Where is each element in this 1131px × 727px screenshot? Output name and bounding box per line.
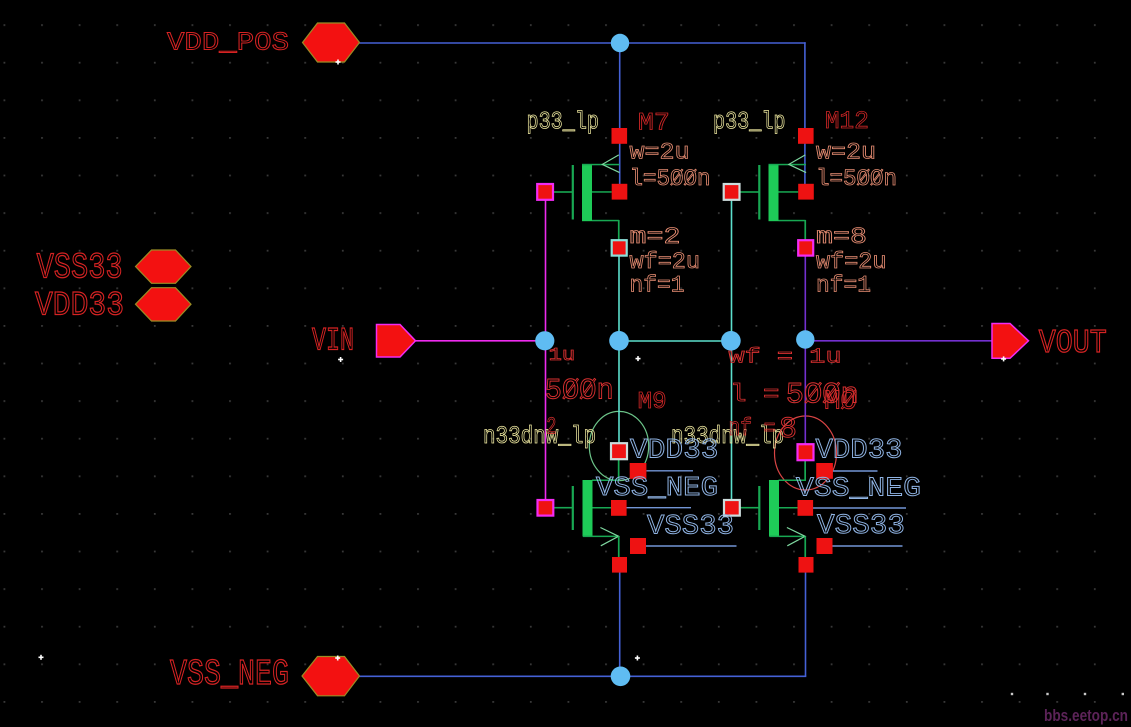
wire VIN from pin to junction: [415, 340, 546, 342]
svg-text:VDD_POS: VDD_POS: [167, 28, 289, 58]
label cellname n33dnw_lp of M9: [483, 422, 596, 451]
origin markers (white crosses): [39, 60, 1007, 661]
highlight ellipse around M0 drain: [775, 416, 837, 490]
svg-text:M9: M9: [638, 389, 667, 416]
svg-text:VSS33: VSS33: [647, 512, 734, 543]
bright grid dots bottom right: [1011, 693, 1124, 695]
svg-text:M12: M12: [825, 107, 869, 136]
svg-text:VSS_NEG: VSS_NEG: [170, 654, 289, 695]
svg-text:m=8: m=8: [816, 224, 867, 251]
wire M7 source to M7 bulk tie: [619, 136, 621, 192]
wire VDD rail drop to M12 source: [804, 42, 806, 136]
M0 bulk pin square: [798, 500, 814, 516]
M0 source pin square: [799, 557, 814, 573]
wire VIN vertical to M7 gate and M9 gate: [545, 192, 547, 508]
M9 gate pin square: [538, 500, 554, 516]
label instance M0: [824, 388, 857, 418]
M9 psub pin square: [630, 538, 646, 554]
label M0 edited nf =: [729, 414, 776, 443]
svg-text:VSS33: VSS33: [37, 248, 123, 289]
node VIN junction: [535, 331, 554, 350]
svg-text:1u: 1u: [549, 345, 576, 366]
label VIN: [312, 323, 354, 360]
svg-text:l =: l =: [730, 380, 780, 409]
label M12 param w=2u: [816, 140, 876, 167]
wire M9 bulk stub (VSS_NEG): [627, 507, 692, 509]
M0 dnw pin square: [816, 463, 833, 479]
net label VSS_NEG at M9 bulk: [596, 474, 718, 504]
label instance M12: [825, 107, 869, 136]
transistor M12 p33_lp pmos symbol: [740, 155, 807, 241]
wire VSS_NEG bottom rail: [360, 675, 807, 677]
pin VSS33 (hexagon): [136, 250, 192, 283]
wire M9 psub stub (VSS33): [646, 545, 737, 547]
label cellname p33_lp of M12: [713, 108, 786, 137]
wire M0 source down to VSS rail: [805, 564, 807, 676]
M7 drain pin square: [612, 240, 627, 255]
label M0 edited nf value 8: [779, 413, 797, 447]
label VDD33: [35, 288, 124, 326]
pin VSS_NEG (hexagon): [302, 657, 360, 696]
label M9 edited w value 1u: [549, 345, 576, 366]
net label VSS_NEG at M0 bulk: [796, 475, 921, 505]
svg-text:VDD33: VDD33: [35, 288, 124, 326]
svg-text:VOUT: VOUT: [1039, 325, 1107, 362]
label instance M9: [638, 389, 667, 416]
pin VDD_POS (hexagon): [303, 23, 360, 62]
watermark bbs.eetop.cn: [1044, 707, 1128, 725]
label M12 param nf=1: [816, 273, 871, 300]
svg-text:wf = 1u: wf = 1u: [729, 347, 842, 370]
label M7 param wf=2u: [630, 249, 701, 276]
wire M12 drain to M0 drain (VOUT vertical): [804, 248, 806, 452]
svg-text:M7: M7: [638, 109, 670, 138]
label M9 edited l value 500n: [545, 375, 614, 409]
node VSS rail junction: [611, 667, 631, 687]
svg-text:2: 2: [546, 415, 556, 442]
label M0 edited wf = 1u: [729, 347, 842, 370]
wire M0 dnw stub (VDD33): [833, 470, 878, 472]
net label VSS33 at M0 psub: [817, 511, 905, 542]
wire VDD_POS top rail: [360, 42, 806, 44]
label M7 param l=500n: [630, 166, 711, 193]
label cellname p33_lp of M7: [527, 108, 600, 137]
M9 bulk pin square: [611, 500, 627, 516]
wire M9 dnw stub (VDD33): [646, 470, 693, 472]
M7 bulk pin square: [612, 184, 628, 200]
svg-text:VSS33: VSS33: [817, 511, 905, 542]
M12 source pin square: [798, 128, 814, 144]
M12 drain pin square: [798, 240, 813, 255]
M12 gate pin square: [724, 184, 740, 200]
label M0 edited l value 500n: [786, 379, 859, 413]
M0 gate pin square: [724, 500, 740, 516]
M12 bulk pin square: [798, 184, 814, 200]
highlight ellipse around M9 drain: [589, 411, 648, 480]
svg-text:8: 8: [779, 413, 797, 447]
net label VDD33 at M0 dnw: [816, 436, 903, 467]
node VDD rail junction: [611, 34, 629, 52]
svg-text:VDD33: VDD33: [630, 436, 719, 467]
wire VOUT junction to output pin: [805, 340, 992, 342]
label M9 edited m value 2: [546, 415, 556, 442]
svg-text:bbs.eetop.cn: bbs.eetop.cn: [1044, 707, 1128, 725]
svg-text:p33_lp: p33_lp: [713, 108, 786, 137]
label M12 param l=500n: [816, 166, 897, 193]
wire M12 source to M12 bulk tie: [804, 136, 806, 192]
transistor M0 n33dnw_lp nmos symbol: [740, 459, 806, 557]
svg-text:nf=1: nf=1: [816, 273, 871, 300]
M9 dnw pin square: [630, 463, 647, 479]
M0 psub pin square: [817, 538, 833, 554]
label VDD_POS: [167, 28, 289, 58]
svg-text:l=5ØØn: l=5ØØn: [816, 166, 897, 193]
svg-text:w=2u: w=2u: [630, 140, 690, 167]
label M12 param m=8: [816, 224, 867, 251]
wire stage1 output to stage2 gates (horizontal): [619, 340, 732, 342]
M0 drain pin square: [798, 444, 814, 460]
pin VDD33 (hexagon): [136, 288, 192, 321]
M7 source pin square: [612, 128, 628, 144]
transistor M9 n33dnw_lp nmos symbol: [554, 459, 620, 557]
label M7 param w=2u: [630, 140, 690, 167]
svg-text:nf=1: nf=1: [630, 273, 685, 300]
svg-text:l=5ØØn: l=5ØØn: [630, 166, 711, 193]
svg-text:n33dnw_lp: n33dnw_lp: [483, 422, 596, 451]
svg-text:VDD33: VDD33: [816, 436, 903, 467]
pin VOUT (output pentagon): [992, 324, 1029, 359]
label M0 edited l =: [730, 380, 780, 409]
M9 source pin square: [612, 557, 627, 573]
label VSS_NEG: [170, 654, 289, 695]
pin VIN (input pentagon): [377, 325, 416, 358]
svg-text:VSS_NEG: VSS_NEG: [596, 474, 718, 504]
label VOUT: [1039, 325, 1107, 362]
M9 drain pin square: [611, 443, 627, 459]
svg-text:m=2: m=2: [630, 224, 681, 251]
wire M0 bulk stub (VSS_NEG): [813, 507, 906, 509]
svg-text:5ØØn: 5ØØn: [545, 375, 614, 409]
wire VDD rail drop to M7 source: [619, 43, 621, 136]
transistor M7 p33_lp pmos symbol: [553, 155, 620, 241]
wire M0 psub stub (VSS33): [833, 545, 903, 547]
M7 gate pin square: [537, 184, 553, 200]
node VOUT junction: [796, 330, 814, 348]
label VSS33: [37, 248, 123, 289]
svg-text:p33_lp: p33_lp: [527, 108, 600, 137]
label M12 param wf=2u: [816, 249, 887, 276]
net label VDD33 at M9 dnw: [630, 436, 719, 467]
svg-text:w=2u: w=2u: [816, 140, 876, 167]
svg-text:nf =: nf =: [729, 414, 776, 443]
svg-text:VIN: VIN: [312, 323, 354, 360]
label cellname n33dnw_lp of M0: [671, 422, 784, 451]
wire M9 source down to VSS rail: [619, 564, 621, 676]
label instance M7: [638, 109, 670, 138]
svg-text:VSS_NEG: VSS_NEG: [796, 475, 921, 505]
svg-text:5ØØn: 5ØØn: [786, 379, 859, 413]
node stage1 output junction: [609, 331, 629, 351]
label M7 param m=2: [630, 224, 681, 251]
label M7 param nf=1: [630, 273, 685, 300]
net label VSS33 at M9 psub: [647, 512, 734, 543]
node stage2 gate junction: [721, 331, 741, 351]
wire M7 drain to M9 drain (stage1 output vertical): [618, 248, 620, 451]
wire M12 gate / M0 gate vertical: [731, 192, 733, 508]
